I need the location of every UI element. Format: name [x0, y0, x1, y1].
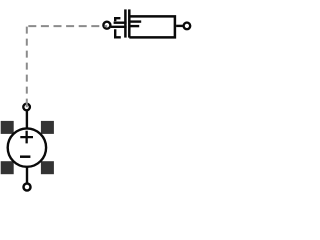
C1 body box: [129, 16, 175, 37]
wire (C1 left lead, lower stub): [111, 26, 127, 28]
node terminal (C1 left): [103, 22, 110, 29]
node terminal (C1 right): [184, 23, 191, 30]
C1 internal stub (lower): [130, 25, 139, 27]
voltage source V1 body: [8, 128, 46, 166]
capacitor C1 plate (left): [124, 9, 127, 37]
V1 plus sign: [20, 131, 33, 144]
selection handle (bottom-left of source V1): [1, 161, 14, 174]
wire (in-progress, dashed, vertical leg from source V1 top terminal): [26, 27, 28, 102]
wire (C1 left lead, upper stub): [114, 22, 127, 24]
wire (C1 right lead): [176, 25, 183, 27]
C1 bracket mark (top-left corner): [115, 18, 120, 21]
wire (dashed wire tail entering V1 top terminal): [26, 101, 28, 107]
V1 minus sign: [20, 155, 30, 158]
C1 internal stub (upper): [130, 20, 141, 22]
selection handle (bottom-right of source V1): [41, 161, 54, 174]
wire (V1 bottom lead): [26, 167, 28, 183]
wire (V1 top lead): [26, 110, 28, 128]
selection handle (top-left of source V1): [1, 121, 14, 134]
node terminal (V1 bottom): [24, 184, 31, 191]
node terminal (V1 top): [23, 104, 30, 111]
capacitor C1 plate (right): [128, 9, 131, 37]
wire (dashed wire tail entering C1 left terminal): [104, 25, 107, 27]
wire (in-progress, dashed, horizontal leg to capacitor C1 left terminal): [28, 25, 99, 27]
selection handle (top-right of source V1): [41, 121, 54, 134]
C1 bracket mark (bottom-left corner): [115, 29, 121, 37]
